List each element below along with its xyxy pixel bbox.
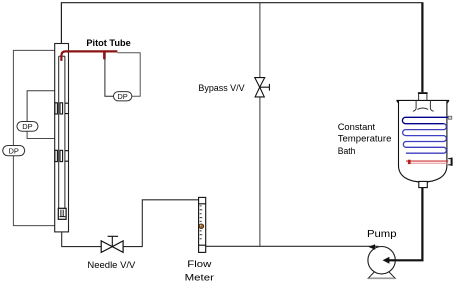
wire: left inner DP loop (top) (27, 91, 55, 122)
arrow on suction line (368, 244, 375, 250)
pressure tap fitting (upper) (55, 103, 68, 114)
DP transmitter (outer loop, DP2) (3, 146, 25, 156)
pressure tap fitting (lower) (55, 150, 68, 161)
svg-text:DP: DP (22, 122, 32, 131)
DP transmitter (inner loop, DP1) (17, 122, 38, 132)
heater terminal bracket (451, 158, 453, 166)
flow meter float (199, 224, 204, 229)
DP transmitter (pitot) (113, 92, 131, 101)
svg-text:Constant: Constant (338, 122, 376, 133)
coil outlet stub (448, 116, 451, 119)
wire: left inner DP loop (bottom) (27, 131, 55, 138)
svg-text:Needle V/V: Needle V/V (87, 260, 136, 271)
bypass valve V/V (255, 78, 270, 97)
wire: top header line from column to bath (61, 3, 421, 44)
wire: pitot DP left lead (105, 59, 114, 96)
svg-text:DP: DP (117, 92, 127, 101)
flow meter body (199, 197, 206, 252)
bath top nozzle collar (418, 92, 428, 94)
cooling coil (blue lower loops) (403, 124, 447, 154)
inner tube left wall (58, 56, 60, 208)
inner tube right wall (64, 56, 66, 208)
wire: pitot DP right lead (117, 53, 140, 96)
arrow into pump center (383, 257, 390, 264)
inner tube top cap (59, 55, 65, 57)
pipe: thick line top header to bath (421, 2, 423, 92)
svg-text:Bath: Bath (338, 146, 356, 157)
test section column (outer pipe) (55, 44, 69, 232)
bath inner neck funnel (413, 101, 434, 112)
constant temperature bath: vessel body (399, 101, 447, 182)
pump inlet stub (thick) inside circle (388, 259, 395, 261)
wire: flow meter outlet to pump suction (206, 245, 379, 247)
svg-text:Bypass V/V: Bypass V/V (198, 83, 245, 94)
heater element (red) (406, 160, 448, 162)
pump base (368, 272, 395, 279)
svg-text:Pitot Tube: Pitot Tube (86, 37, 130, 48)
needle valve V/V (101, 236, 123, 252)
svg-text:Meter: Meter (185, 272, 215, 282)
pump casing (368, 247, 395, 274)
tube end fitting at column bottom (58, 208, 66, 219)
bath bottom nozzle (419, 181, 428, 187)
svg-text:Pump: Pump (367, 229, 397, 240)
svg-text:Flow: Flow (187, 259, 211, 270)
svg-text:Temperature: Temperature (338, 134, 392, 145)
cooling coil (navy top loops) (402, 117, 448, 123)
bath lid (396, 100, 449, 103)
wire: needle valve to flow meter riser (123, 200, 199, 247)
wire: bypass vertical line (259, 3, 261, 247)
wire: left outer DP loop (13, 50, 54, 225)
wire: column outlet to needle valve (62, 232, 101, 246)
pipe: thick line bath to pump (388, 188, 422, 261)
svg-text:DP: DP (8, 146, 18, 155)
pitot tube DP tap tick (red) (103, 52, 106, 59)
pitot tube (red) (61, 51, 117, 61)
